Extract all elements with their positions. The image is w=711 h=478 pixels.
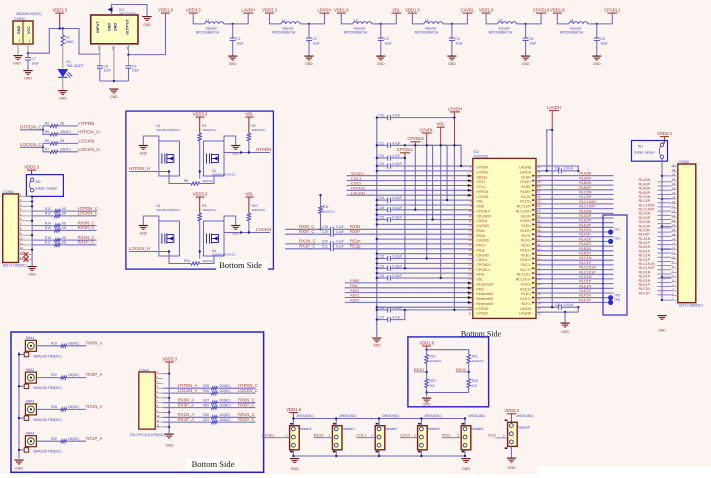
node CPVDL1 xyxy=(596,23,598,25)
ground under C1 xyxy=(228,56,237,60)
CON2 pin 6 xyxy=(671,276,678,278)
wire CAVDL jog to pin12 xyxy=(427,145,433,219)
ground at U3 xyxy=(143,216,159,225)
svg-text:4.7uF: 4.7uF xyxy=(392,141,400,145)
wire VDD3.3 to inductor L1 xyxy=(193,13,205,24)
svg-text:GND: GND xyxy=(24,77,32,81)
svg-text:0Ω(NC): 0Ω(NC) xyxy=(220,403,231,407)
svg-text:RLD0+: RLD0+ xyxy=(520,219,531,223)
wire IC2 pin30 LPGND to bus xyxy=(377,306,473,308)
svg-text:45: 45 xyxy=(537,248,541,252)
svg-text:0.01uF: 0.01uF xyxy=(392,255,402,259)
svg-text:header6: header6 xyxy=(518,425,530,429)
svg-text:GND: GND xyxy=(13,62,21,66)
svg-text:RLE1N: RLE1N xyxy=(579,284,591,288)
svg-text:GND: GND xyxy=(305,62,313,66)
wire input HTPDN_H xyxy=(129,171,169,173)
svg-text:R12: R12 xyxy=(45,207,51,211)
resistor R29 row xyxy=(163,407,211,409)
svg-text:RLD0N: RLD0N xyxy=(579,209,591,213)
wire IC2 output RLF1P xyxy=(536,301,611,303)
wire header3 top pin xyxy=(378,419,380,426)
svg-text:0Ω(NC): 0Ω(NC) xyxy=(68,405,79,409)
svg-text:R30: R30 xyxy=(472,379,478,383)
svg-text:CPVDL1: CPVDL1 xyxy=(476,268,490,272)
wire IC2 pin62 LAGND xyxy=(536,166,578,171)
svg-text:GND: GND xyxy=(166,444,174,448)
wire IC2 output RLD0N xyxy=(536,212,614,214)
svg-text:uPC2915BT: uPC2915BT xyxy=(119,12,136,16)
junction CON2 ground pin xyxy=(661,175,663,177)
svg-text:52271-1490(NC): 52271-1490(NC) xyxy=(3,264,27,268)
svg-text:R22: R22 xyxy=(51,373,57,377)
svg-text:INPUT: INPUT xyxy=(96,21,100,33)
svg-text:R21: R21 xyxy=(472,355,478,359)
svg-text:HTPDN: HTPDN xyxy=(476,190,489,194)
svg-text:RLC0+: RLC0+ xyxy=(520,200,531,204)
svg-text:GND: GND xyxy=(593,62,601,66)
svg-text:0Ω(NC): 0Ω(NC) xyxy=(68,373,79,377)
svg-text:R6: R6 xyxy=(45,139,49,143)
capacitor C7 xyxy=(27,53,29,57)
wire IC1 output to VDD1.8 xyxy=(129,13,166,55)
svg-text:HTPDN_H: HTPDN_H xyxy=(129,166,150,171)
svg-text:VDL: VDL xyxy=(476,200,483,204)
svg-text:CAGND: CAGND xyxy=(476,239,489,243)
svg-text:C3: C3 xyxy=(384,37,388,41)
capacitor C1 xyxy=(232,24,234,38)
capacitor C16 xyxy=(377,219,388,221)
svg-text:RXIP_C: RXIP_C xyxy=(299,229,314,234)
svg-text:CPVDL0: CPVDL0 xyxy=(533,8,550,13)
ground at U4 xyxy=(224,216,236,225)
solder jumper W1 xyxy=(632,141,668,162)
svg-text:RLA1P: RLA1P xyxy=(579,242,591,246)
test point TP6 xyxy=(608,300,613,305)
svg-text:53: 53 xyxy=(537,209,541,213)
svg-text:10uF: 10uF xyxy=(132,69,139,73)
svg-text:RX0N_A: RX0N_A xyxy=(86,340,102,345)
resistor R10 xyxy=(247,213,251,221)
svg-text:SMA105-TR6(NC): SMA105-TR6(NC) xyxy=(33,354,62,358)
wire IC1 pin3 xyxy=(128,44,130,66)
svg-text:RLB0-: RLB0- xyxy=(521,185,532,189)
svg-text:0.01uF: 0.01uF xyxy=(392,216,402,220)
svg-text:0.1uF: 0.1uF xyxy=(336,245,344,249)
svg-text:55: 55 xyxy=(537,199,541,203)
svg-text:R15: R15 xyxy=(45,226,51,230)
wire CON1 pin2 to ground xyxy=(17,44,19,55)
svg-text:0.01uF: 0.01uF xyxy=(392,162,402,166)
svg-text:GND: GND xyxy=(522,62,530,66)
svg-text:C20: C20 xyxy=(322,240,328,244)
wire LOCKN_C xyxy=(20,146,43,148)
svg-text:RLA0+: RLA0+ xyxy=(520,180,531,184)
svg-text:1kΩ: 1kΩ xyxy=(472,383,478,387)
wire output node LOCKN xyxy=(248,221,250,233)
wire IC2 output RLE1N xyxy=(536,287,614,289)
wire header1 top pin xyxy=(292,419,294,426)
test point TP2 xyxy=(608,239,613,244)
svg-text:RLF0P: RLF0P xyxy=(579,233,591,237)
svg-text:SMA3: SMA3 xyxy=(26,400,35,404)
svg-text:RLE0+: RLE0+ xyxy=(520,229,531,233)
svg-text:0Ω: 0Ω xyxy=(62,226,67,230)
svg-text:R25: R25 xyxy=(203,384,209,388)
wire node to LAVDH flag xyxy=(233,13,249,24)
junction CON3 pin 6 to ground bus xyxy=(31,220,33,222)
svg-text:Reserved0: Reserved0 xyxy=(476,297,493,301)
svg-text:RLD0-: RLD0- xyxy=(521,214,532,218)
svg-text:VCC: VCC xyxy=(27,26,31,34)
svg-text:MPZ1608B471A: MPZ1608B471A xyxy=(415,31,439,35)
ground under C6 xyxy=(592,56,601,60)
svg-text:GND: GND xyxy=(423,403,431,407)
svg-text:RLF1P: RLF1P xyxy=(639,291,651,295)
ground under IC1 xyxy=(109,89,118,93)
junction CON3 pin 2 to ground bus xyxy=(31,200,33,202)
CON3 pin 13 xyxy=(19,254,33,256)
svg-text:VDD3.3: VDD3.3 xyxy=(24,165,39,170)
svg-text:RES1: RES1 xyxy=(414,367,425,372)
Bottom Side box (SMA connectors) xyxy=(11,332,264,472)
svg-text:SDSEL: SDSEL xyxy=(476,175,488,179)
svg-text:VDL: VDL xyxy=(245,112,254,117)
ground under C3 xyxy=(376,56,385,60)
svg-text:SSM3K16FS(NC): SSM3K16FS(NC) xyxy=(156,128,180,132)
inductor L5 xyxy=(498,22,517,24)
CON2 pin 10 xyxy=(671,258,678,260)
svg-text:LOCKN_H: LOCKN_H xyxy=(78,147,100,152)
wire IC2 output RLB0P xyxy=(536,189,614,191)
node CAVDL xyxy=(451,23,453,25)
svg-text:2: 2 xyxy=(19,39,21,43)
svg-text:RLA1+: RLA1+ xyxy=(520,248,531,252)
svg-text:PDN: PDN xyxy=(476,287,484,291)
node LAVDH xyxy=(232,23,234,25)
svg-text:GND: GND xyxy=(59,97,67,101)
wire IC2 pin23 GND to bus xyxy=(377,272,473,274)
resistor R28 xyxy=(36,408,60,410)
CON4 ground bus xyxy=(168,375,170,433)
svg-text:LPVDH: LPVDH xyxy=(476,312,488,316)
capacitor C15 xyxy=(377,209,388,211)
bypass ground bus xyxy=(376,118,378,337)
svg-text:L4: L4 xyxy=(425,19,429,23)
svg-text:SDSEL: SDSEL xyxy=(262,432,276,437)
wire IC2 output RLD1N xyxy=(536,278,614,280)
CON2 pin 14 xyxy=(671,239,678,241)
svg-text:TP5: TP5 xyxy=(614,294,620,298)
svg-text:GND: GND xyxy=(507,466,515,470)
svg-text:C31: C31 xyxy=(555,167,561,171)
svg-text:GND: GND xyxy=(229,62,237,66)
svg-text:RLCLK1P: RLCLK1P xyxy=(579,270,596,274)
CON2 pin 28 xyxy=(671,175,678,177)
wire IC2 output RLA1P xyxy=(536,245,614,247)
inductor L4 xyxy=(424,22,443,24)
svg-text:0.01uF: 0.01uF xyxy=(564,167,574,171)
resistor R27 row xyxy=(163,402,211,404)
CON2 pin 11 xyxy=(671,253,678,255)
svg-text:VDD1.8: VDD1.8 xyxy=(158,8,173,13)
resistor R30 bottom xyxy=(467,379,471,388)
svg-text:VDD1.8: VDD1.8 xyxy=(479,8,494,13)
svg-text:VDD3.3: VDD3.3 xyxy=(262,8,277,13)
connector CON1 xyxy=(13,21,33,44)
svg-text:Bottom Side: Bottom Side xyxy=(192,459,235,469)
svg-text:VDD3.3: VDD3.3 xyxy=(504,408,519,413)
svg-text:C21: C21 xyxy=(322,245,328,249)
svg-text:GND: GND xyxy=(143,23,151,27)
CON2 pin 18 xyxy=(671,221,678,223)
wire IC2 output RLB1P xyxy=(536,255,614,257)
svg-text:RLC1P: RLC1P xyxy=(579,261,591,265)
svg-text:RLB1P: RLB1P xyxy=(579,252,591,256)
node RES1 xyxy=(426,364,428,379)
svg-text:RLA0P: RLA0P xyxy=(579,176,591,180)
svg-text:0.01uF: 0.01uF xyxy=(564,303,574,307)
svg-text:0.1uF: 0.1uF xyxy=(336,230,344,234)
resistor R25 row xyxy=(163,387,211,389)
wire VDL jog to pin8 xyxy=(441,145,447,200)
wire IC2 output RLCLK1P xyxy=(536,273,614,275)
svg-text:GND: GND xyxy=(15,467,23,471)
svg-text:CPGND0: CPGND0 xyxy=(476,214,491,218)
svg-text:COL1: COL1 xyxy=(476,180,485,184)
svg-text:CAVDL: CAVDL xyxy=(420,127,434,132)
svg-text:header5: header5 xyxy=(472,427,484,431)
svg-text:RLD1-: RLD1- xyxy=(521,283,532,287)
svg-text:Reserved0: Reserved0 xyxy=(476,292,493,296)
capacitor C14 xyxy=(377,199,388,201)
svg-text:LOCKN_C: LOCKN_C xyxy=(238,388,258,393)
svg-text:CAVDL: CAVDL xyxy=(476,258,487,262)
svg-text:R31: R31 xyxy=(203,418,209,422)
resistor R18 xyxy=(169,256,191,264)
wire node to CAVDL flag xyxy=(452,13,468,24)
wire LPVDH jog to pin1 xyxy=(454,145,461,166)
resistor R12 row xyxy=(32,210,54,212)
svg-text:RLC0N: RLC0N xyxy=(579,191,591,195)
svg-text:CPVDL0: CPVDL0 xyxy=(407,136,424,141)
wire IC2 output RLC0P xyxy=(536,198,614,200)
CON2 pin 7 xyxy=(671,272,678,274)
CON2 pin 29 xyxy=(671,170,678,172)
svg-text:10uF: 10uF xyxy=(529,42,536,46)
CON4 pin 8 xyxy=(155,407,163,409)
wire IC2 output RLA0P xyxy=(536,179,614,181)
LED D1 xyxy=(58,70,72,78)
wire VDD3.3 to inductor L2 xyxy=(270,13,282,24)
svg-text:C1: C1 xyxy=(236,37,240,41)
svg-text:10uF: 10uF xyxy=(104,69,111,73)
wire LED to ground xyxy=(62,78,64,91)
wire IC2 pin11 CPGND0 to bus xyxy=(377,214,473,216)
CON3 pin 11 xyxy=(19,244,33,246)
wire node to LPVDH flag xyxy=(309,13,325,24)
junction CON2 ground pin xyxy=(661,225,663,227)
svg-text:R17: R17 xyxy=(45,241,51,245)
svg-text:W2: W2 xyxy=(35,180,40,184)
svg-text:CPVDL1: CPVDL1 xyxy=(397,147,414,152)
svg-text:R2: R2 xyxy=(45,121,49,125)
svg-text:0.01uF: 0.01uF xyxy=(392,206,402,210)
svg-text:LPGND: LPGND xyxy=(476,307,489,311)
svg-text:10uF: 10uF xyxy=(32,62,40,66)
svg-text:0Ω: 0Ω xyxy=(62,236,67,240)
svg-text:GND: GND xyxy=(140,152,148,156)
wire header2 top pin xyxy=(335,419,337,426)
svg-text:3HEAD(NC): 3HEAD(NC) xyxy=(468,414,485,418)
page margin xyxy=(537,466,711,478)
svg-text:VDL: VDL xyxy=(476,278,483,282)
svg-text:GND: GND xyxy=(658,329,666,333)
capacitor C2 xyxy=(308,24,310,38)
wire IC1 output ground rail xyxy=(100,80,129,82)
svg-text:C10: C10 xyxy=(378,114,384,118)
no-connect X on CON3 pin 13 xyxy=(23,252,28,262)
CON2 pin 19 xyxy=(671,216,678,218)
resistor R4 xyxy=(247,133,251,141)
svg-text:HTPDN: HTPDN xyxy=(79,121,95,126)
wire VDD3.3 node to R1 xyxy=(62,29,64,36)
CON4 pin 12 xyxy=(155,426,163,428)
junction CON3 pin 12 to ground bus xyxy=(31,249,33,251)
svg-text:RLB1N: RLB1N xyxy=(579,247,591,251)
svg-text:3HEAD(NC): 3HEAD(NC) xyxy=(296,414,313,418)
svg-text:C16: C16 xyxy=(378,216,384,220)
ground at U1 xyxy=(143,136,159,145)
svg-text:LOCKN: LOCKN xyxy=(256,227,272,232)
svg-text:4.7uF: 4.7uF xyxy=(392,316,400,320)
svg-text:RXIP: RXIP xyxy=(350,229,360,234)
inductor L6 xyxy=(569,22,588,24)
svg-text:54: 54 xyxy=(537,204,541,208)
svg-text:37: 37 xyxy=(537,287,541,291)
svg-text:1kΩ(NC): 1kΩ(NC) xyxy=(430,359,442,363)
transistor U4 xyxy=(204,221,225,256)
svg-text:VDD1.8: VDD1.8 xyxy=(419,340,434,345)
inductor L1 xyxy=(205,22,224,24)
svg-text:header2: header2 xyxy=(343,427,355,431)
svg-text:CON1: CON1 xyxy=(14,16,26,21)
wire IC2 output RLF1N xyxy=(536,297,611,299)
junction CON2 ground pin xyxy=(661,198,663,200)
svg-text:MPZ1608B471A: MPZ1608B471A xyxy=(272,31,296,35)
svg-text:RX0P_C: RX0P_C xyxy=(238,402,254,407)
svg-text:RLE0-: RLE0- xyxy=(521,224,532,228)
junction CON2 ground pin xyxy=(661,276,663,278)
wire IC2 pin19 CAGND to bus xyxy=(377,253,473,255)
resistor R32 xyxy=(36,440,60,442)
wire input LOCKN_H xyxy=(129,251,169,253)
svg-text:R18: R18 xyxy=(184,259,190,263)
ground under CON3 bus xyxy=(28,267,37,271)
wire IC2 output RLCLK0N xyxy=(536,203,614,205)
wire VDL drop to pin24 xyxy=(440,145,442,278)
ground under CON2 bus xyxy=(657,316,666,320)
svg-text:LOCKN: LOCKN xyxy=(79,139,95,144)
svg-text:LAGND: LAGND xyxy=(519,166,532,170)
svg-text:VDD1.8: VDD1.8 xyxy=(550,8,565,13)
CON3 pin 1 xyxy=(19,196,33,198)
CON2 pin 23 xyxy=(671,198,678,200)
header top rail xyxy=(293,418,465,420)
svg-text:THCV236: THCV236 xyxy=(474,154,488,158)
svg-text:R13: R13 xyxy=(45,212,51,216)
svg-text:C18: C18 xyxy=(322,225,328,229)
svg-text:CSL-FPC(0.5)12PD(NC): CSL-FPC(0.5)12PD(NC) xyxy=(130,433,165,437)
CON2 pin 26 xyxy=(671,184,678,186)
svg-text:RLB0N: RLB0N xyxy=(579,181,591,185)
svg-text:CPVDL0: CPVDL0 xyxy=(476,209,490,213)
ground under header1 xyxy=(290,459,299,463)
wire node to VDL flag xyxy=(381,13,397,24)
svg-text:RX0P_C: RX0P_C xyxy=(78,225,95,230)
svg-text:CPGND1: CPGND1 xyxy=(476,263,491,267)
resistor R20 xyxy=(426,350,428,355)
CON4 pin 3 xyxy=(155,382,163,384)
svg-text:GND: GND xyxy=(448,62,456,66)
svg-text:RLB1-: RLB1- xyxy=(521,253,532,257)
svg-text:0Ω(NC): 0Ω(NC) xyxy=(220,413,231,417)
wire divider top xyxy=(427,350,469,355)
svg-text:L6: L6 xyxy=(570,19,574,23)
resistor R30 row xyxy=(163,416,211,418)
svg-text:RES1: RES1 xyxy=(314,432,324,437)
svg-text:SMA4: SMA4 xyxy=(26,431,35,435)
CON4 pin 1 xyxy=(155,373,163,375)
svg-text:RLC1N: RLC1N xyxy=(579,256,591,260)
svg-text:0.01uF: 0.01uF xyxy=(392,196,402,200)
ground under LED xyxy=(58,91,67,95)
wire IC2 output RLA1N xyxy=(536,240,611,242)
wire IC2 output RLE0P xyxy=(536,226,614,228)
wire IC2 pin21 CPGND1 to bus xyxy=(377,262,473,264)
wire IC2 pin2 LPGND to bus xyxy=(377,170,473,172)
CON3 pin 7 xyxy=(19,225,33,227)
CON4 pin 10 xyxy=(155,416,163,418)
svg-text:RLD0P: RLD0P xyxy=(579,214,591,218)
CON4 pin 9 xyxy=(155,411,163,413)
svg-text:L5: L5 xyxy=(499,19,503,23)
resistor R14 row xyxy=(32,225,54,227)
svg-text:L3: L3 xyxy=(354,19,358,23)
svg-text:SMA105-TR6(NC): SMA105-TR6(NC) xyxy=(33,450,62,454)
svg-text:GND: GND xyxy=(28,273,36,277)
wire IC1 pin1 xyxy=(99,44,101,66)
svg-text:3HEAD(NC): 3HEAD(NC) xyxy=(382,414,399,418)
wire IC2 output RLC1P xyxy=(536,264,614,266)
svg-text:RS1p: RS1p xyxy=(476,248,485,252)
svg-text:0Ω(NC): 0Ω(NC) xyxy=(60,147,71,151)
wire IC2 pin16 CAGND to bus xyxy=(377,238,473,240)
svg-text:L2: L2 xyxy=(282,19,286,23)
svg-text:10uF: 10uF xyxy=(236,42,243,46)
header bottom rail xyxy=(293,455,465,457)
wire SMA1 ground to bus xyxy=(19,354,24,356)
node CPVDL0 xyxy=(524,23,526,25)
wire IC2 output RLC1N xyxy=(536,259,614,261)
CON2 pin 8 xyxy=(671,267,678,269)
capacitor C13 xyxy=(377,165,388,167)
svg-text:31: 31 xyxy=(468,311,472,315)
svg-text:10kΩ(NC): 10kΩ(NC) xyxy=(202,128,215,132)
capacitor C31 xyxy=(536,170,559,172)
junction CON2 ground pin xyxy=(661,299,663,301)
wire IC2 output RLE0N xyxy=(536,222,614,224)
